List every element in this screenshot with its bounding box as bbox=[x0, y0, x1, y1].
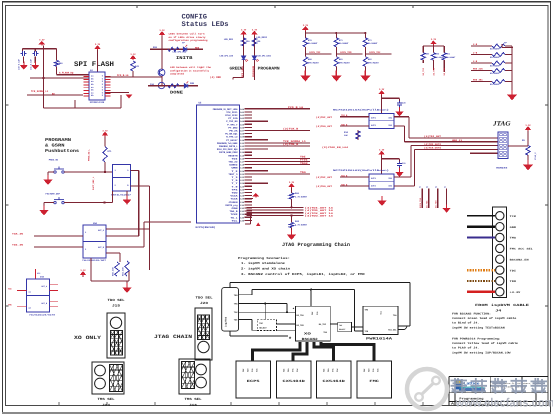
svg-text:to Bind of J4.: to Bind of J4. bbox=[452, 322, 479, 325]
svg-text:TMS SEL: TMS SEL bbox=[98, 397, 115, 401]
svg-text:HDR2X5: HDR2X5 bbox=[496, 167, 508, 170]
svg-text:3.3V: 3.3V bbox=[431, 38, 437, 41]
svg-text:J14: J14 bbox=[102, 403, 110, 407]
title block frame bbox=[449, 376, 548, 378]
svg-text:TDO: TDO bbox=[510, 280, 517, 283]
svg-text:TMS SEL: TMS SEL bbox=[185, 397, 202, 401]
svg-text:SPI25FL132K: SPI25FL132K bbox=[90, 101, 105, 104]
buffer U7 vcc wire bbox=[381, 155, 383, 174]
svg-text:3.3V: 3.3V bbox=[379, 88, 385, 91]
svg-text:BS_TMS: BS_TMS bbox=[297, 324, 305, 327]
svg-text:OUT2: OUT2 bbox=[371, 124, 377, 127]
J4 wire TDI orange bbox=[467, 269, 495, 271]
svg-text:FMC: FMC bbox=[369, 379, 379, 383]
svg-text:NO-MOUNT: NO-MOUNT bbox=[490, 72, 500, 75]
svg-text:(4)TDO_OUT: (4)TDO_OUT bbox=[316, 185, 333, 188]
wire INITB rail bbox=[150, 48, 203, 50]
buffer U6 box bbox=[369, 113, 394, 128]
ground for C30 bbox=[23, 57, 25, 64]
svg-text:FOR BSCAN2 FUNCTION:: FOR BSCAN2 FUNCTION: bbox=[452, 313, 491, 316]
svg-text:TDI: TDI bbox=[283, 369, 286, 372]
power flag VCC chip U4 bbox=[95, 46, 99, 50]
block TAP SELECT box bbox=[257, 320, 276, 331]
ground arrow mid bbox=[378, 196, 385, 205]
buffer U6 decoupling cap bbox=[382, 97, 400, 99]
svg-text:BSCAN2_EN: BSCAN2_EN bbox=[510, 258, 530, 261]
ground ladder bbox=[508, 90, 516, 100]
fpga long net wires bbox=[247, 108, 311, 110]
ground resnet 3 bbox=[364, 67, 366, 74]
svg-text:SELECT: SELECT bbox=[339, 328, 346, 331]
resistor ladder 4 bbox=[492, 69, 505, 73]
thick jtag chain bus bbox=[253, 342, 301, 361]
svg-text:Connect Green lead of ispVM ca: Connect Green lead of ispVM cable bbox=[452, 317, 517, 320]
svg-text:2-B: 2-B bbox=[473, 52, 478, 55]
wire RC rail bbox=[432, 44, 434, 47]
svg-text:SPI_LED1: SPI_LED1 bbox=[241, 65, 244, 77]
wire ladder row 2 bbox=[471, 54, 492, 56]
svg-text:74LVC2G125/SC70: 74LVC2G125/SC70 bbox=[29, 314, 56, 317]
svg-text:DONE: DONE bbox=[170, 91, 184, 96]
svg-text:*: * bbox=[292, 308, 294, 313]
svg-text:OUT_A: OUT_A bbox=[41, 285, 48, 288]
U8 wires right bbox=[131, 170, 139, 172]
svg-text:3.3V: 3.3V bbox=[39, 39, 45, 42]
svg-text:TCK_IN: TCK_IN bbox=[12, 233, 24, 236]
svg-text:(4)TMS_OUT@: (4)TMS_OUT@ bbox=[424, 143, 442, 146]
power flag GREEN bbox=[241, 32, 245, 36]
svg-text:NC7SZ126L6X(NoPullDown): NC7SZ126L6X(NoPullDown) bbox=[333, 169, 389, 172]
svg-text:JTAG: JTAG bbox=[492, 120, 511, 127]
svg-text:ECP5_TDM: ECP5_TDM bbox=[340, 51, 352, 54]
wire spi row2 bbox=[30, 77, 89, 79]
svg-text:NO-MOUNT: NO-MOUNT bbox=[490, 48, 500, 51]
fpga jtag bus wires bbox=[247, 206, 304, 208]
LED D1 INITB bbox=[183, 45, 187, 51]
svg-text:R41: R41 bbox=[135, 65, 140, 68]
svg-text:PROG_SW: PROG_SW bbox=[49, 159, 59, 162]
block FMC box bbox=[357, 361, 392, 398]
svg-text:OUT_B: OUT_B bbox=[41, 302, 48, 305]
J4 pin circle 1 bbox=[496, 212, 504, 220]
net stub XO_TDO bbox=[437, 189, 439, 209]
svg-text:J16: J16 bbox=[189, 403, 197, 407]
U9 output wires bbox=[106, 228, 150, 230]
block CX5464D box bbox=[317, 361, 352, 398]
svg-text:NO-MOUNT: NO-MOUNT bbox=[308, 42, 318, 45]
svg-text:ispVM SW setting TESTxBSCAN: ispVM SW setting TESTxBSCAN bbox=[452, 326, 505, 329]
buffer U7 decoupling cap bbox=[382, 158, 400, 160]
svg-text:R71: R71 bbox=[108, 150, 113, 153]
ground SW1 bbox=[44, 175, 51, 184]
buffer U7 input wires bbox=[340, 176, 369, 178]
block PWR1014A box bbox=[363, 306, 398, 334]
svg-text:(4)TDI_OUT: (4)TDI_OUT bbox=[316, 176, 333, 179]
svg-text:(2)JTAG_EN_L64: (2)JTAG_EN_L64 bbox=[322, 146, 349, 149]
resistor R40 bottom bbox=[303, 57, 307, 67]
wire SW1 to U8 bbox=[64, 171, 112, 173]
svg-text:JTAG_V: JTAG_V bbox=[534, 152, 537, 160]
resistor R22 bbox=[241, 38, 245, 46]
wire resnet column 1 bbox=[304, 33, 306, 38]
resistor ladder 3 bbox=[492, 61, 505, 65]
J4 pin circle 7 bbox=[496, 277, 504, 285]
svg-text:J20: J20 bbox=[200, 301, 208, 305]
svg-text:RED: RED bbox=[195, 47, 200, 50]
svg-text:GND: GND bbox=[510, 226, 517, 229]
chip U10 bbox=[27, 279, 50, 312]
svg-text:3.3V: 3.3V bbox=[525, 124, 531, 127]
svg-text:ECP5(BSCAN): ECP5(BSCAN) bbox=[196, 226, 217, 229]
svg-text:FACT_DEF_L: FACT_DEF_L bbox=[92, 176, 95, 190]
bus pullup resistor R67 bbox=[291, 216, 293, 223]
resistor R71 / vcc bbox=[103, 133, 107, 137]
svg-text:a1: a1 bbox=[419, 186, 421, 189]
jumper J14 bbox=[92, 362, 124, 394]
fpga U5 box bbox=[197, 105, 240, 223]
power flag VCC3V3 spi bbox=[40, 42, 44, 46]
svg-text:NO-MOUNT: NO-MOUNT bbox=[490, 56, 500, 59]
svg-text:CX5404D: CX5404D bbox=[283, 379, 305, 383]
svg-text:ECP5_TDI: ECP5_TDI bbox=[309, 51, 321, 54]
net tap resnet 1 bbox=[304, 47, 306, 57]
svg-text:TDI_SEL: TDI_SEL bbox=[388, 329, 397, 332]
svg-text:NO-MOUNT: NO-MOUNT bbox=[339, 42, 349, 45]
block XO BSCAN2 box bbox=[295, 306, 330, 341]
svg-text:A: A bbox=[451, 403, 454, 406]
svg-text:TDO: TDO bbox=[300, 171, 306, 174]
svg-text:3.3V: 3.3V bbox=[289, 181, 295, 184]
jumper J16 bbox=[179, 359, 210, 394]
wire U4 bottom loop bbox=[120, 95, 122, 108]
svg-text:R20: R20 bbox=[153, 46, 158, 49]
wire resnet column 2 bbox=[335, 33, 337, 38]
svg-text:SN74LVC2G17: SN74LVC2G17 bbox=[111, 194, 132, 197]
svg-text:(4)TDO_OUT: (4)TDO_OUT bbox=[316, 125, 333, 128]
svg-text:Programming Scenarios:: Programming Scenarios: bbox=[238, 256, 290, 260]
svg-text:3.3V: 3.3V bbox=[241, 29, 247, 32]
wire S_FLASH net bbox=[56, 66, 58, 74]
resistor R49 bbox=[422, 46, 424, 53]
svg-text:(4)TDO_OUT 14: (4)TDO_OUT 14 bbox=[305, 215, 334, 218]
svg-text:OPN-MOUNT: OPN-MOUNT bbox=[368, 62, 380, 65]
svg-text:JTAG CHAIN: JTAG CHAIN bbox=[154, 334, 192, 340]
svg-text:3.3V: 3.3V bbox=[80, 269, 86, 272]
svg-text:(2)TMS_B: (2)TMS_B bbox=[283, 143, 299, 146]
resistor R23 bbox=[252, 38, 256, 46]
svg-text:LED_SPI_LED2: LED_SPI_LED2 bbox=[257, 55, 271, 58]
svg-text:NC7SZ126L6X(NoPullDown): NC7SZ126L6X(NoPullDown) bbox=[333, 109, 389, 112]
buffer U7 output wires bbox=[394, 176, 411, 178]
svg-text:PROG_SW_L: PROG_SW_L bbox=[88, 148, 91, 161]
svg-text:TDO_B: TDO_B bbox=[341, 123, 348, 126]
U4 right pin stubs bbox=[105, 76, 111, 78]
net tap resnet 2 bbox=[335, 47, 337, 57]
svg-text:TMS: TMS bbox=[510, 237, 517, 240]
power flag PROGRAMN bbox=[252, 32, 256, 36]
svg-text:TDI_B: TDI_B bbox=[341, 114, 348, 117]
resistor R20 bbox=[168, 47, 179, 51]
block ECP5 box bbox=[236, 361, 271, 398]
power flag resnet bbox=[303, 27, 307, 31]
U9 input wires bbox=[34, 235, 83, 237]
watermark chinese text bbox=[451, 378, 548, 394]
LED D4 PROGRAMN bbox=[252, 56, 258, 62]
svg-text:Status LEDs: Status LEDs bbox=[182, 21, 229, 29]
svg-text:(4)TCK_OUT@: (4)TCK_OUT@ bbox=[424, 147, 442, 150]
svg-text:ECP5_TDC: ECP5_TDC bbox=[369, 51, 381, 54]
svg-text:HDR_J3: HDR_J3 bbox=[452, 139, 463, 142]
ground for C31 bbox=[34, 57, 36, 64]
svg-text:2-B: 2-B bbox=[473, 60, 478, 63]
svg-text:J4: J4 bbox=[495, 308, 501, 312]
power arrow at U4 right bbox=[105, 92, 129, 94]
border zone ticks bbox=[136, 5, 138, 8]
capacitor C31 bbox=[34, 49, 36, 52]
power rail caps wire bbox=[23, 48, 57, 50]
buffer U6 vcc wire bbox=[381, 94, 383, 113]
svg-text:U9A: U9A bbox=[93, 222, 98, 225]
svg-text:OPN-MOUNT: OPN-MOUNT bbox=[339, 62, 351, 65]
J4 wire TCK black bbox=[467, 215, 495, 217]
svg-text:completed: completed bbox=[170, 73, 185, 76]
svg-text:OUT_A: OUT_A bbox=[98, 229, 105, 232]
junction dot SPI loop bbox=[42, 48, 44, 50]
svg-text:XO_TDI: XO_TDI bbox=[425, 200, 428, 208]
J4 pin circle 4 bbox=[496, 244, 504, 252]
svg-text:R55 21K: R55 21K bbox=[473, 68, 483, 71]
svg-text:NO-MOUNT: NO-MOUNT bbox=[368, 42, 378, 45]
svg-text:a3: a3 bbox=[435, 186, 437, 189]
LED D3 GREEN bbox=[242, 56, 248, 62]
wire ladder bus bbox=[511, 46, 513, 91]
svg-text:3.3V: 3.3V bbox=[159, 29, 165, 32]
svg-text:TDO SEL: TDO SEL bbox=[108, 298, 125, 302]
resistor R30 top bbox=[303, 38, 307, 47]
svg-text:www.elecfans.com: www.elecfans.com bbox=[455, 396, 553, 410]
svg-text:BSCAN2: BSCAN2 bbox=[302, 337, 318, 341]
ground bus pulldown bbox=[291, 228, 293, 233]
resistor ladder 5 bbox=[492, 80, 505, 84]
svg-text:+3.3V: +3.3V bbox=[510, 291, 521, 294]
svg-text:(4)TDI_OUT: (4)TDI_OUT bbox=[316, 116, 333, 119]
svg-text:NO-MOUNT: NO-MOUNT bbox=[490, 65, 500, 68]
svg-text:156: 156 bbox=[150, 83, 155, 86]
svg-text:2-B: 2-B bbox=[473, 43, 478, 46]
LED D2 DONE bbox=[184, 81, 188, 87]
power flag RC group bbox=[431, 41, 435, 45]
capacitor C30 bbox=[22, 49, 24, 52]
svg-text:OUT1: OUT1 bbox=[371, 116, 377, 119]
J4 wire TDO brown bbox=[467, 280, 495, 282]
J4 wire 3.3V red bbox=[467, 291, 495, 293]
svg-text:TDO2: TDO2 bbox=[300, 162, 308, 165]
svg-text:FCS_B_L6: FCS_B_L6 bbox=[288, 106, 304, 109]
J4 pin circle 2 bbox=[496, 223, 504, 231]
connector J4 body bbox=[493, 207, 507, 298]
svg-text:OUT2: OUT2 bbox=[371, 184, 377, 187]
gate chip U8 bbox=[113, 165, 131, 192]
svg-text:R40: R40 bbox=[59, 62, 64, 65]
resistor R21 bbox=[168, 84, 179, 88]
J4 pin circle 3 bbox=[496, 233, 504, 241]
svg-text:FOR POWR1014 Programming:: FOR POWR1014 Programming: bbox=[452, 338, 501, 341]
ground resnet 1 bbox=[304, 67, 306, 74]
spi flash chip U4 bbox=[89, 72, 105, 100]
buffer U7 box bbox=[369, 174, 394, 189]
svg-text:4.7K-NOMNT: 4.7K-NOMNT bbox=[295, 224, 308, 227]
jtag pullup wire bbox=[508, 145, 528, 147]
transistor Q4 bbox=[158, 82, 164, 88]
svg-text:3.3V: 3.3V bbox=[379, 149, 385, 152]
buffer bias parts bbox=[357, 130, 359, 140]
svg-text:ECP5_TDO: ECP5_TDO bbox=[419, 197, 422, 208]
svg-text:PWR1014A: PWR1014A bbox=[366, 336, 394, 341]
ground resnet 2 bbox=[335, 67, 337, 74]
gate chip U9 bbox=[83, 225, 106, 258]
svg-text:XO_TDI: XO_TDI bbox=[422, 67, 425, 75]
svg-text:PROGRAMN: PROGRAMN bbox=[45, 138, 71, 143]
svg-text:TDI: TDI bbox=[311, 312, 314, 315]
svg-text:1- ispVM standalone: 1- ispVM standalone bbox=[241, 261, 285, 265]
svg-text:74LVC2G125/SOT: 74LVC2G125/SOT bbox=[82, 259, 107, 262]
svg-text:JTAG Programming Chain: JTAG Programming Chain bbox=[282, 242, 350, 248]
svg-text:3.3V: 3.3V bbox=[102, 130, 108, 133]
wire resnet rail bbox=[304, 31, 306, 33]
svg-text:ispJTAG: ispJTAG bbox=[225, 316, 228, 327]
svg-text:3.3V: 3.3V bbox=[95, 43, 101, 46]
svg-text:Pushbuttons: Pushbuttons bbox=[45, 148, 79, 154]
wire GREEN column bbox=[243, 34, 245, 78]
resistor R31 top bbox=[334, 38, 338, 47]
svg-text:TDO_B: TDO_B bbox=[341, 183, 348, 186]
power flag bus pullup bbox=[289, 184, 293, 188]
U9 bottom loop bbox=[90, 258, 92, 281]
net stub XO_TDI bbox=[428, 189, 430, 209]
block CX5404D box bbox=[277, 361, 312, 398]
wire top right stub bbox=[501, 44, 503, 48]
svg-text:FACTORY_DEF: FACTORY_DEF bbox=[46, 193, 61, 196]
svg-text:FROM ispDVM CABLE: FROM ispDVM CABLE bbox=[475, 303, 529, 307]
svg-text:R80_10K: R80_10K bbox=[112, 267, 115, 276]
jumper J20 bbox=[195, 308, 212, 360]
wire DONE rail bbox=[148, 85, 198, 87]
svg-text:3.3V: 3.3V bbox=[303, 24, 309, 27]
svg-text:FCS_B-L6: FCS_B-L6 bbox=[117, 74, 129, 77]
svg-text:LED_SPI_LED: LED_SPI_LED bbox=[220, 55, 234, 58]
svg-text:LED_RES2: LED_RES2 bbox=[256, 36, 267, 39]
wire ladder row 4 bbox=[471, 70, 492, 72]
svg-text:TCL: TCL bbox=[231, 219, 238, 222]
svg-text:C30 0.1UF: C30 0.1UF bbox=[18, 58, 21, 70]
svg-text:XO: XO bbox=[304, 332, 311, 336]
resistor R81 bbox=[125, 261, 129, 276]
lattice logo bbox=[456, 380, 462, 390]
wire ladder row 5 bbox=[471, 81, 492, 83]
power flag above R41 bbox=[131, 56, 135, 60]
svg-text:C31 0.1UF: C31 0.1UF bbox=[29, 58, 32, 70]
resistor ladder 1 bbox=[492, 44, 505, 48]
jtag pullup resistor bbox=[526, 146, 530, 156]
svg-text:TCK_SCRRA_L1: TCK_SCRRA_L1 bbox=[31, 90, 49, 93]
resistor R41 pullup FCS bbox=[131, 61, 135, 71]
svg-text:TDI: TDI bbox=[363, 369, 366, 372]
ground arrow right bbox=[446, 189, 448, 207]
svg-text:S_FLASH_DQ: S_FLASH_DQ bbox=[59, 72, 74, 75]
U4 left pin stubs bbox=[84, 76, 90, 78]
svg-text:Connect Yellow lead of ispVM c: Connect Yellow lead of ispVM cable bbox=[452, 342, 518, 345]
block buffer small box bbox=[338, 322, 352, 332]
transistor Q3 bbox=[158, 69, 165, 76]
svg-text:TDI: TDI bbox=[339, 324, 342, 327]
ground U9 loop bbox=[126, 281, 128, 285]
svg-text:PROGRAMN: PROGRAMN bbox=[252, 65, 255, 77]
svg-text:R56 3K1: R56 3K1 bbox=[473, 79, 483, 82]
svg-text:ispVM SW setting ISP/BSCAN.LOW: ispVM SW setting ISP/BSCAN.LOW bbox=[452, 351, 511, 354]
svg-text:3.3V: 3.3V bbox=[130, 53, 136, 56]
wire pwr right bbox=[398, 329, 405, 331]
svg-text:XO_TCK: XO_TCK bbox=[443, 67, 446, 75]
svg-text:NO-MOUNT: NO-MOUNT bbox=[446, 56, 456, 59]
svg-text:(4) RED: (4) RED bbox=[210, 76, 222, 79]
resistor R50 bbox=[432, 46, 434, 53]
svg-text:BA_TDI: BA_TDI bbox=[319, 323, 327, 326]
svg-text:ECP5: ECP5 bbox=[247, 379, 260, 383]
jumper J15 bbox=[107, 313, 125, 358]
svg-text:4.7K-NOMNT: 4.7K-NOMNT bbox=[295, 196, 308, 199]
resistor ladder 2 bbox=[492, 53, 505, 57]
resistor R40 pullup bbox=[56, 49, 58, 61]
U10 vcc wire bbox=[34, 269, 36, 279]
net stub ECP5_TDO bbox=[421, 189, 423, 209]
J4 pin circle 6 bbox=[496, 266, 504, 274]
svg-text:OPN-MOUNT: OPN-MOUNT bbox=[308, 62, 320, 65]
resistor R80 bbox=[115, 262, 119, 276]
svg-text:a2: a2 bbox=[426, 186, 428, 189]
buffer U6 input wires bbox=[340, 116, 369, 118]
svg-text:TCK: TCK bbox=[510, 215, 517, 218]
J4 wire GND black bbox=[467, 226, 495, 228]
svg-text:CX5464D: CX5464D bbox=[323, 379, 345, 383]
svg-text:SPI FLASH: SPI FLASH bbox=[74, 61, 114, 69]
wire ladder row 3 bbox=[471, 62, 492, 64]
U10 left pin stubs bbox=[17, 289, 27, 291]
svg-text:3- BSCAN2 control of ECP5, isp: 3- BSCAN2 control of ECP5, ispCLK1, ispC… bbox=[241, 272, 365, 276]
svg-text:330: 330 bbox=[256, 40, 261, 43]
svg-text:3.3V: 3.3V bbox=[252, 29, 258, 32]
wire tap to bscan bbox=[277, 323, 296, 325]
jtag wires bbox=[409, 137, 498, 139]
power flag LED INITB bbox=[160, 32, 164, 36]
svg-text:XO_TMS: XO_TMS bbox=[432, 67, 435, 75]
svg-text:& GSRN: & GSRN bbox=[45, 144, 65, 149]
bus pullup resistor R66 bbox=[291, 188, 293, 193]
svg-text:TDI_B: TDI_B bbox=[341, 174, 348, 177]
svg-text:GRN: GRN bbox=[190, 82, 195, 85]
svg-text:PROGRAMN: PROGRAMN bbox=[258, 67, 281, 72]
svg-text:NO-MOUNT: NO-MOUNT bbox=[490, 83, 500, 86]
power flag jtag bbox=[526, 127, 530, 131]
svg-text:INITB: INITB bbox=[176, 56, 193, 61]
buffer U6 output wires bbox=[394, 116, 409, 118]
svg-text:2- ispVM and XO chain: 2- ispVM and XO chain bbox=[241, 267, 290, 271]
ground jtag bbox=[527, 155, 529, 162]
ground buffer U6 cap bbox=[399, 107, 401, 109]
svg-text:LED_SPI_LED: LED_SPI_LED bbox=[173, 51, 187, 54]
svg-text:configuration programming: configuration programming bbox=[169, 39, 209, 42]
block diagram routing wires bbox=[229, 283, 231, 288]
svg-text:FMC ACC SEL: FMC ACC SEL bbox=[510, 248, 534, 251]
